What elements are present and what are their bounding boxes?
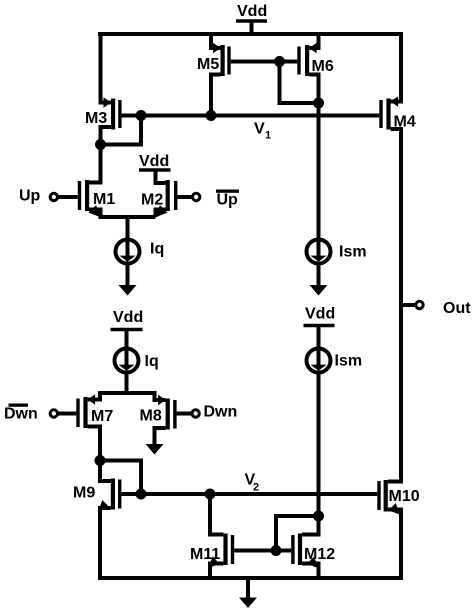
wire: right rail M4 drain down to M10 drain xyxy=(388,305,401,482)
svg-text:M11: M11 xyxy=(190,546,220,563)
wire: M7/M8 common source tail xyxy=(98,391,157,395)
Vdd supply symbol (above lower Ism) xyxy=(304,306,336,349)
svg-text:V: V xyxy=(254,121,265,138)
wire: gate tie down to M6 drain xyxy=(280,62,319,104)
transistor M9 xyxy=(73,461,141,579)
Out terminal xyxy=(401,300,471,317)
junction dot (M12 diode tie) xyxy=(313,511,324,522)
svg-text:Iq: Iq xyxy=(145,353,159,370)
wire: bottom Vss rail xyxy=(98,576,403,580)
transistor M4 xyxy=(379,32,416,307)
svg-text:Ism: Ism xyxy=(339,244,367,261)
current source Iq (upper) xyxy=(116,240,165,264)
junction dot (M6 drain diode tie) xyxy=(313,98,324,109)
svg-text:M7: M7 xyxy=(91,408,113,425)
wire: M9 diode tie to V2 xyxy=(100,461,141,495)
junction dot (M11 drain on V2) xyxy=(205,489,216,500)
svg-text:1: 1 xyxy=(265,130,271,142)
svg-text:M2: M2 xyxy=(141,192,163,209)
svg-text:Up: Up xyxy=(217,192,239,209)
Vdd supply symbol (above lower Iq) xyxy=(111,309,144,349)
svg-text:M5: M5 xyxy=(197,56,219,73)
junction dot (M5 drain on V1) xyxy=(206,110,217,121)
node V1 label xyxy=(254,121,271,142)
svg-text:Out: Out xyxy=(443,300,471,317)
junction dot (M7 drain / M9 drain) xyxy=(95,455,106,466)
node V1 wire xyxy=(141,114,379,118)
svg-text:Dwn: Dwn xyxy=(4,406,38,423)
svg-text:M3: M3 xyxy=(85,110,107,127)
wire: M11/M12 gate tie up to M12 drain xyxy=(276,516,319,551)
svg-text:M10: M10 xyxy=(389,488,420,505)
Dwn input terminal xyxy=(177,404,238,421)
wire: Iq to Vss arrow xyxy=(126,264,130,288)
Vss arrow (below upper Ism) xyxy=(310,285,328,296)
wire: left rail from top rail to M3 source xyxy=(101,32,112,103)
wire: lower Ism down to M12 drain xyxy=(317,373,321,535)
transistor M10 xyxy=(377,480,419,578)
Vdd supply symbol (top) xyxy=(236,3,267,34)
transistor M5 xyxy=(197,32,280,116)
junction dot (M11/M12 gate tie) xyxy=(271,545,282,556)
svg-text:Up: Up xyxy=(19,188,41,205)
node junction dot (M3 drain / M1 drain) xyxy=(95,139,106,150)
transistor M3 xyxy=(85,97,141,144)
svg-text:M4: M4 xyxy=(394,114,416,131)
current source Iq (lower) xyxy=(115,349,159,373)
svg-text:M12: M12 xyxy=(304,546,335,563)
transistor M1 xyxy=(78,146,116,221)
svg-text:Vdd: Vdd xyxy=(113,309,143,326)
Dwn-bar input terminal xyxy=(4,404,76,423)
svg-text:M6: M6 xyxy=(312,58,334,75)
svg-text:Dwn: Dwn xyxy=(204,404,238,421)
wire: Ism to Vss arrow xyxy=(317,264,321,288)
wire: lower Iq to M7/M8 tail xyxy=(125,373,129,396)
wire: M1/M2 common source tail xyxy=(99,217,156,241)
svg-text:Ism: Ism xyxy=(335,353,363,370)
wire: node A down to M1 drain xyxy=(89,145,101,183)
Vss arrow (below upper Iq) xyxy=(119,285,137,296)
transistor M6 xyxy=(280,32,334,240)
node A junction dot (V1 at M3 gate) xyxy=(136,110,147,121)
transistor M12 xyxy=(276,516,335,578)
svg-text:Vdd: Vdd xyxy=(305,306,335,323)
wire: M3 gate/drain tie down to node A xyxy=(101,116,142,145)
transistor M11 xyxy=(190,494,276,578)
svg-text:Vdd: Vdd xyxy=(237,3,267,20)
Vss arrow (below M8 drain) xyxy=(146,444,164,455)
node V2 label xyxy=(245,472,260,494)
node V2 wire xyxy=(141,492,377,496)
svg-text:M8: M8 xyxy=(140,408,162,425)
svg-text:Vdd: Vdd xyxy=(139,153,169,170)
Vss arrow (bottom) xyxy=(239,578,257,608)
svg-text:Iq: Iq xyxy=(150,241,164,258)
transistor M2 xyxy=(141,170,177,221)
junction dot (M5/M6 gate tie) xyxy=(274,56,285,67)
junction dot (M9 gate on V2) xyxy=(136,489,147,500)
current source Ism (lower) xyxy=(307,349,363,373)
transistor M8 xyxy=(140,391,177,446)
Up-bar input terminal xyxy=(177,190,239,209)
wire: top Vdd rail xyxy=(98,32,403,36)
svg-text:M9: M9 xyxy=(73,485,95,502)
Up input terminal xyxy=(19,188,78,205)
svg-text:M1: M1 xyxy=(93,191,115,208)
transistor M7 xyxy=(76,391,113,461)
current source Ism (upper) xyxy=(307,240,367,264)
svg-text:2: 2 xyxy=(253,482,259,494)
Vdd supply symbol (above M2) xyxy=(139,153,171,170)
